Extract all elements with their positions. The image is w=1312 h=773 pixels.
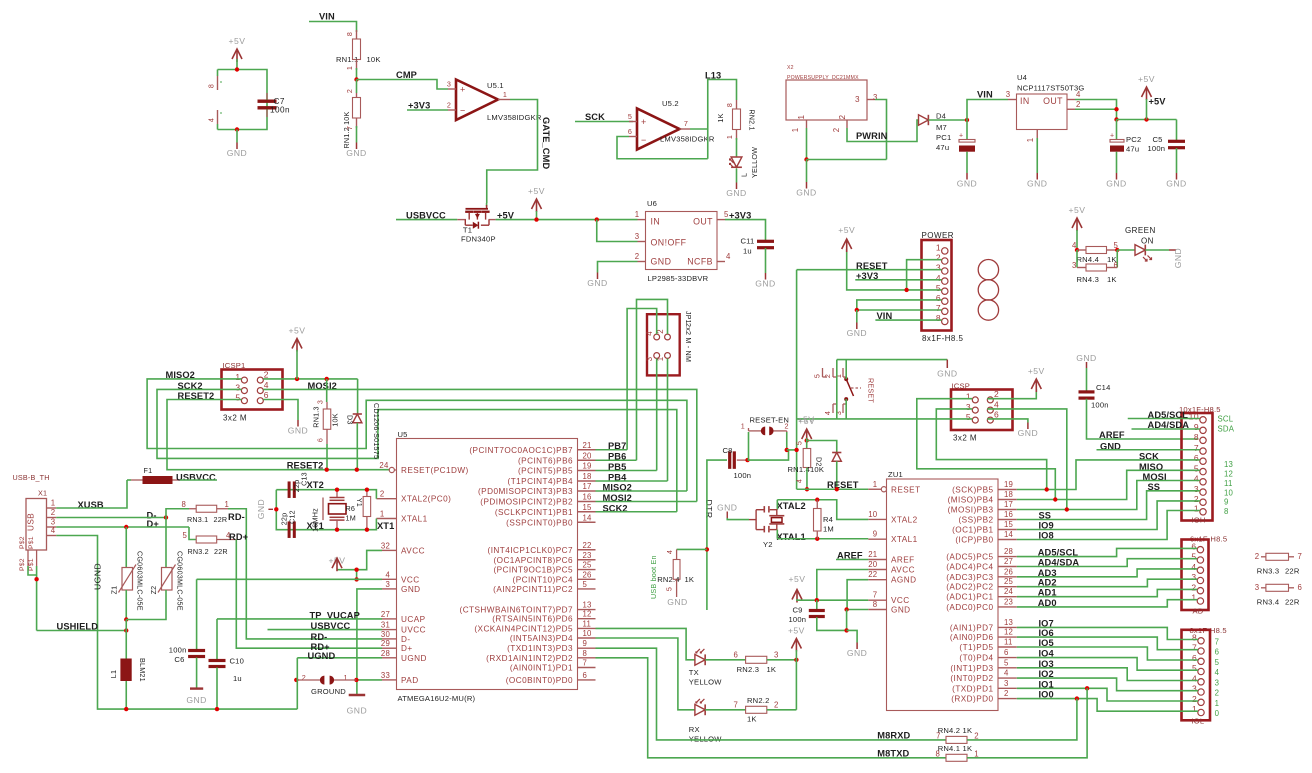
diode D2 bbox=[807, 441, 837, 453]
pin 3 bbox=[1008, 99, 1017, 101]
ICSP1 +5V wire bbox=[263, 378, 357, 380]
svg-text:8: 8 bbox=[1194, 432, 1199, 442]
svg-text:RN3.4: RN3.4 bbox=[1257, 598, 1280, 607]
capacitor C11 1u bbox=[757, 240, 774, 243]
svg-text:+5V: +5V bbox=[1149, 97, 1167, 107]
junction bbox=[844, 607, 848, 611]
svg-text:+: + bbox=[460, 85, 466, 95]
svg-text:3: 3 bbox=[645, 357, 654, 362]
svg-text:CG0603MLC-05E: CG0603MLC-05E bbox=[136, 551, 145, 611]
svg-text:R4: R4 bbox=[823, 515, 833, 524]
svg-text:+5V: +5V bbox=[1069, 205, 1086, 215]
svg-text:LMV358IDGKR: LMV358IDGKR bbox=[660, 135, 715, 144]
JP1 pin 4 bbox=[654, 334, 660, 340]
svg-text:GND: GND bbox=[957, 179, 977, 189]
U5 AVCC +5V wiring bbox=[337, 550, 382, 569]
AD pin 6 bbox=[1197, 547, 1203, 553]
svg-text:VIN: VIN bbox=[319, 12, 335, 22]
svg-text:15: 15 bbox=[583, 503, 593, 512]
svg-text:PC2: PC2 bbox=[1126, 135, 1141, 144]
op-amp U5.1 LMV358IDGKR bbox=[456, 80, 498, 121]
svg-text:(INT5AIN3)PD4: (INT5AIN3)PD4 bbox=[510, 634, 573, 643]
svg-text:U5.1: U5.1 bbox=[487, 81, 504, 90]
svg-text:RN1.3: RN1.3 bbox=[312, 406, 321, 427]
svg-text:GND: GND bbox=[1027, 179, 1047, 189]
resistor RN1.3 10K bbox=[326, 379, 328, 402]
svg-text:+5V: +5V bbox=[528, 186, 545, 196]
junction bbox=[235, 67, 239, 71]
svg-text:TX: TX bbox=[689, 668, 699, 677]
svg-text:RN2.1: RN2.1 bbox=[748, 109, 757, 130]
svg-text:(ICP)PB0: (ICP)PB0 bbox=[955, 536, 993, 545]
IO4 wire bbox=[1017, 658, 1198, 671]
feedback wire bbox=[617, 137, 708, 159]
svg-text:17: 17 bbox=[583, 482, 592, 491]
capacitor C13 22p bbox=[288, 481, 291, 498]
svg-text:6: 6 bbox=[264, 390, 269, 400]
svg-text:GND: GND bbox=[847, 648, 867, 658]
wire bbox=[787, 449, 797, 451]
wire to U6 ON/OFF bbox=[597, 220, 638, 242]
svg-text:11: 11 bbox=[1224, 479, 1233, 488]
SCK wire bbox=[1017, 460, 1200, 490]
pin 2 ground bbox=[638, 261, 646, 263]
power bypass wiring for U5 supply bbox=[218, 70, 268, 130]
svg-text:RN2.2: RN2.2 bbox=[747, 696, 770, 705]
varistor Z1 CG0603MLC-05E bbox=[125, 527, 127, 568]
svg-text:POWER: POWER bbox=[922, 231, 954, 240]
svg-text:CD1206-S01575: CD1206-S01575 bbox=[372, 403, 381, 459]
svg-text:5: 5 bbox=[1191, 552, 1196, 562]
svg-text:3: 3 bbox=[1194, 484, 1199, 494]
svg-text:L1: L1 bbox=[109, 670, 118, 678]
ICSP1 pin 4 bbox=[257, 388, 263, 394]
AD5 wire bbox=[1017, 548, 1197, 556]
IO8 wire bbox=[1017, 511, 1200, 540]
svg-text:9: 9 bbox=[1194, 422, 1199, 432]
svg-text:7: 7 bbox=[936, 303, 941, 313]
ground bbox=[806, 160, 808, 183]
POWER pin 6 bbox=[942, 298, 948, 304]
svg-text:GND: GND bbox=[401, 585, 421, 594]
junction bbox=[124, 707, 128, 711]
AD1 wire bbox=[1017, 589, 1197, 596]
U5 pin 10 PD4 bbox=[578, 637, 596, 639]
svg-text:25: 25 bbox=[1004, 577, 1014, 586]
svg-text:AVCC: AVCC bbox=[401, 546, 425, 555]
svg-text:XTAL2: XTAL2 bbox=[891, 515, 918, 524]
ZU1 pin 15 PB1 bbox=[998, 529, 1017, 531]
IOH pin 5 bbox=[1200, 468, 1206, 474]
junction bbox=[534, 217, 538, 221]
svg-text:RESET: RESET bbox=[867, 378, 876, 403]
svg-text:(ADC4)PC4: (ADC4)PC4 bbox=[946, 563, 993, 572]
svg-text:L: L bbox=[740, 173, 749, 177]
JP1 pin 2 bbox=[665, 334, 671, 340]
pin 7 output bbox=[680, 128, 691, 130]
svg-text:17: 17 bbox=[1004, 500, 1013, 509]
svg-text:4: 4 bbox=[385, 570, 390, 579]
POWER pin 2 bbox=[942, 258, 948, 264]
svg-text:19: 19 bbox=[1004, 480, 1013, 489]
svg-text:14: 14 bbox=[583, 513, 593, 522]
U5 pin 1 XTAL1 bbox=[376, 518, 396, 520]
svg-text:ATMEGA16U2-MU(R): ATMEGA16U2-MU(R) bbox=[398, 694, 476, 703]
resistor RN1.1 10K bbox=[356, 30, 358, 39]
AD pin 2 bbox=[1197, 588, 1203, 594]
svg-text:13: 13 bbox=[1004, 618, 1013, 627]
svg-text:F1: F1 bbox=[144, 466, 153, 475]
U5 pin 8 PD2 bbox=[578, 657, 596, 659]
svg-text:(OC1APCINT8)PC6: (OC1APCINT8)PC6 bbox=[493, 556, 573, 565]
svg-text:+5V: +5V bbox=[788, 626, 805, 636]
POWER pin 5 bbox=[942, 288, 948, 294]
LED ON green bbox=[1117, 249, 1135, 251]
ZU1 AVCC wire bbox=[817, 570, 869, 601]
IO5 wire bbox=[1017, 647, 1198, 660]
svg-text:1: 1 bbox=[51, 499, 56, 508]
MISO2 wire bbox=[596, 490, 687, 492]
svg-text:22R: 22R bbox=[1285, 567, 1300, 576]
svg-text:13: 13 bbox=[583, 601, 592, 610]
svg-text:1K: 1K bbox=[767, 665, 777, 674]
svg-text:NCP1117ST50T3G: NCP1117ST50T3G bbox=[1017, 84, 1085, 93]
pin 3 bbox=[448, 88, 456, 90]
X1 pin 4 bbox=[47, 535, 57, 537]
ground bbox=[736, 183, 738, 190]
svg-text:+: + bbox=[641, 117, 647, 127]
pin 3 bbox=[638, 241, 646, 243]
svg-text:RN3.1: RN3.1 bbox=[187, 515, 208, 524]
svg-text:R6: R6 bbox=[346, 504, 356, 513]
svg-text:7: 7 bbox=[345, 126, 354, 130]
POWER pin7 ground wire bbox=[857, 309, 942, 311]
capacitor PC2 47u polarized bbox=[1116, 120, 1118, 140]
capacitor PC1 47u polarized bbox=[966, 120, 968, 140]
svg-text:4: 4 bbox=[1192, 674, 1197, 684]
svg-text:1u: 1u bbox=[233, 674, 242, 683]
svg-text:26: 26 bbox=[1004, 567, 1013, 576]
svg-text:C9: C9 bbox=[793, 606, 803, 615]
svg-text:(PCINT6)PB6: (PCINT6)PB6 bbox=[518, 456, 573, 465]
svg-text:+5V: +5V bbox=[789, 574, 806, 584]
svg-text:XT1: XT1 bbox=[377, 521, 394, 531]
capacitor C5 100n bbox=[1176, 120, 1178, 142]
resistor RN4.3 1K bbox=[1076, 250, 1078, 268]
svg-text:2: 2 bbox=[774, 701, 779, 710]
svg-text:Y1: Y1 bbox=[355, 498, 362, 507]
svg-text:4: 4 bbox=[1076, 90, 1081, 99]
PB4 wire bbox=[596, 480, 668, 482]
svg-text:+: + bbox=[959, 133, 963, 140]
svg-text:3: 3 bbox=[834, 411, 843, 415]
svg-text:Z1: Z1 bbox=[110, 586, 119, 595]
U5 pin 3 GND bbox=[382, 588, 397, 590]
svg-text:32: 32 bbox=[381, 541, 390, 550]
svg-text:100n: 100n bbox=[789, 615, 807, 624]
svg-text:XTAL2(PC0): XTAL2(PC0) bbox=[401, 495, 451, 504]
svg-text:Z2: Z2 bbox=[149, 586, 158, 595]
U5 pin 18 PB4 bbox=[578, 480, 596, 482]
junction bbox=[595, 217, 599, 221]
U5 pin 14 PB0 bbox=[578, 521, 596, 523]
RD+ wire bbox=[236, 540, 382, 649]
IOL pin 1 bbox=[1198, 709, 1204, 715]
junction node CMP bbox=[354, 77, 358, 81]
svg-text:16MHz: 16MHz bbox=[311, 508, 320, 532]
IOH pin 9 bbox=[1200, 427, 1206, 433]
POWER pin2 +3V3 wire bbox=[907, 260, 942, 290]
ZU1 pin 20 AVCC bbox=[868, 569, 886, 571]
svg-text:19: 19 bbox=[583, 462, 592, 471]
ZU1 pin 17 PB3 bbox=[998, 509, 1017, 511]
svg-text:C13: C13 bbox=[300, 472, 309, 486]
junction bbox=[794, 658, 798, 662]
svg-text:+3V3: +3V3 bbox=[408, 101, 430, 111]
svg-text:29: 29 bbox=[381, 639, 390, 648]
svg-text:1K: 1K bbox=[1107, 275, 1117, 284]
svg-text:VCC: VCC bbox=[401, 575, 420, 584]
RXLED wire bbox=[596, 638, 695, 710]
svg-text:GND: GND bbox=[717, 503, 737, 513]
svg-text:3: 3 bbox=[1215, 679, 1220, 688]
ZU1 pin 5 PD3 bbox=[998, 667, 1017, 669]
svg-text:6: 6 bbox=[1004, 648, 1009, 657]
IO1 wire bbox=[1017, 688, 1198, 701]
jumper pin2 wire bbox=[786, 432, 788, 450]
U5 pin 31 UVCC bbox=[382, 629, 397, 631]
svg-text:3: 3 bbox=[315, 400, 324, 404]
resistor RN2.2 1K bbox=[705, 709, 745, 711]
U5 pin 4 VCC bbox=[382, 578, 397, 580]
ZU1 pin 19 PB5 bbox=[998, 489, 1017, 491]
svg-text:XT2: XT2 bbox=[307, 480, 324, 490]
svg-text:10: 10 bbox=[1189, 412, 1199, 422]
junction bbox=[855, 308, 859, 312]
svg-text:5: 5 bbox=[1194, 463, 1199, 473]
U5 power pin 8 bbox=[217, 76, 219, 90]
AD3 wire bbox=[1017, 569, 1197, 577]
svg-text:RD-: RD- bbox=[311, 632, 328, 642]
svg-text:FDN340P: FDN340P bbox=[461, 235, 496, 244]
svg-text:SCL: SCL bbox=[1218, 415, 1234, 424]
svg-text:5: 5 bbox=[966, 412, 971, 422]
TXLED wire bbox=[596, 628, 695, 659]
jumper pin1 wire bbox=[748, 432, 750, 460]
svg-text:6: 6 bbox=[315, 438, 324, 442]
svg-text:4: 4 bbox=[994, 399, 999, 409]
IO0 wire bbox=[1017, 699, 1198, 712]
junction bbox=[124, 628, 128, 632]
svg-text:2: 2 bbox=[51, 508, 56, 517]
svg-text:3: 3 bbox=[635, 232, 640, 241]
svg-text:8: 8 bbox=[1192, 633, 1197, 643]
svg-text:GND: GND bbox=[847, 328, 867, 338]
ICSP pin 5 bbox=[972, 417, 978, 423]
U5 pin 2 XTAL2 bbox=[376, 498, 396, 500]
IO2 wire bbox=[1017, 678, 1198, 691]
svg-text:SDA: SDA bbox=[1218, 425, 1235, 434]
svg-text:IOH: IOH bbox=[1192, 516, 1206, 525]
svg-text:8: 8 bbox=[207, 84, 216, 88]
svg-text:10K: 10K bbox=[367, 55, 381, 64]
svg-text:RX: RX bbox=[689, 725, 700, 734]
capacitor C8 100n bbox=[728, 451, 731, 469]
wire bbox=[356, 68, 358, 80]
svg-text:NCFB: NCFB bbox=[687, 257, 713, 267]
svg-text:16: 16 bbox=[583, 493, 592, 502]
svg-text:2: 2 bbox=[832, 128, 841, 133]
svg-text:RESET: RESET bbox=[891, 485, 921, 494]
svg-text:(ADC2)PC2: (ADC2)PC2 bbox=[946, 583, 993, 592]
svg-text:GND: GND bbox=[1076, 353, 1096, 363]
svg-text:RN1.1: RN1.1 bbox=[336, 55, 359, 64]
svg-text:5: 5 bbox=[628, 112, 632, 121]
JP1 pin4 wire to PB7 bbox=[627, 309, 657, 450]
RESET wire to ZU1 bbox=[797, 488, 869, 490]
AD0 wire bbox=[1017, 600, 1197, 607]
svg-text:7: 7 bbox=[1298, 552, 1303, 561]
svg-text:RD+: RD+ bbox=[229, 532, 249, 542]
pin 2 bbox=[846, 120, 848, 128]
junction bbox=[124, 617, 128, 621]
U5 pin 15 PB1 bbox=[578, 511, 596, 513]
svg-text:5: 5 bbox=[936, 283, 941, 293]
IOH pin 4 bbox=[1200, 479, 1206, 485]
svg-text:RN2.3: RN2.3 bbox=[737, 665, 760, 674]
svg-text:47u: 47u bbox=[936, 143, 949, 152]
LED TX yellow bbox=[695, 654, 705, 665]
junction bbox=[1075, 696, 1079, 700]
svg-text:2: 2 bbox=[838, 114, 847, 119]
svg-text:DTR: DTR bbox=[704, 500, 714, 519]
ZU1 pin 27 PC4 bbox=[998, 566, 1017, 568]
diode D3 CD1206-S01575 bbox=[357, 379, 359, 414]
POWER pin6 wire bbox=[857, 300, 942, 310]
svg-text:28: 28 bbox=[381, 649, 390, 658]
svg-text:(T1PCINT4)PB4: (T1PCINT4)PB4 bbox=[508, 477, 573, 486]
+5V rail wire bbox=[1117, 119, 1177, 121]
svg-text:(SS)PB2: (SS)PB2 bbox=[958, 516, 993, 525]
svg-text:1: 1 bbox=[791, 128, 800, 133]
ICSP pin2 +5V wire bbox=[987, 389, 1036, 399]
IOH pin 8 bbox=[1200, 437, 1206, 443]
junction bbox=[1114, 107, 1118, 111]
svg-text:4: 4 bbox=[823, 411, 832, 415]
svg-text:C11: C11 bbox=[741, 237, 755, 246]
svg-text:(OC1)PB1: (OC1)PB1 bbox=[952, 526, 993, 535]
ZU1 pin 13 PD7 bbox=[998, 626, 1017, 628]
resistor RN1.2 10K bbox=[356, 80, 358, 94]
U5 pin 33 PAD bbox=[382, 679, 397, 681]
svg-text:GND: GND bbox=[346, 148, 366, 158]
svg-text:3x2 M: 3x2 M bbox=[223, 414, 247, 423]
svg-text:GND: GND bbox=[667, 597, 687, 607]
ZU1 pin 22 AGND bbox=[868, 579, 886, 581]
net DTR to RN2.4 bbox=[705, 547, 709, 551]
svg-text:6: 6 bbox=[1194, 453, 1199, 463]
ground bbox=[856, 310, 858, 323]
svg-text:GND: GND bbox=[347, 706, 367, 716]
svg-text:(TXD1INT3)PD3: (TXD1INT3)PD3 bbox=[507, 644, 573, 653]
U5 pin 19 PB5 bbox=[578, 470, 596, 472]
ICSP1 pin 2 bbox=[257, 377, 263, 383]
svg-text:15: 15 bbox=[1004, 520, 1014, 529]
svg-text:2: 2 bbox=[302, 673, 306, 682]
svg-text:GND: GND bbox=[186, 695, 206, 705]
svg-text:10K: 10K bbox=[331, 413, 340, 426]
svg-text:GATE_CMD: GATE_CMD bbox=[541, 117, 551, 169]
svg-text:2: 2 bbox=[785, 422, 789, 431]
U5 power pin 4 bbox=[217, 110, 219, 124]
svg-text:3: 3 bbox=[1004, 679, 1009, 688]
svg-text:IO8: IO8 bbox=[1039, 531, 1054, 541]
svg-text:GND: GND bbox=[1018, 428, 1038, 438]
PB7 wire bbox=[596, 449, 628, 451]
svg-text:1: 1 bbox=[225, 500, 230, 509]
JP1 pin 1 bbox=[665, 353, 671, 359]
svg-text:1: 1 bbox=[1215, 699, 1220, 708]
svg-text:4: 4 bbox=[645, 331, 654, 336]
pin 2 bbox=[448, 109, 456, 111]
svg-text:24: 24 bbox=[1004, 587, 1014, 596]
svg-text:10: 10 bbox=[868, 510, 878, 519]
M8RXD wire to IO0 bbox=[967, 699, 1077, 740]
junction bbox=[805, 487, 809, 491]
svg-text:RD-: RD- bbox=[228, 512, 245, 522]
svg-text:X2: X2 bbox=[787, 65, 794, 71]
ICSP pin 3 bbox=[972, 407, 978, 413]
AD pin 1 bbox=[1197, 598, 1203, 604]
svg-text:AD: AD bbox=[1193, 607, 1204, 616]
svg-text:14: 14 bbox=[1004, 530, 1014, 539]
svg-text:(SSPCINT0)PB0: (SSPCINT0)PB0 bbox=[506, 518, 573, 527]
U5 pin 9 PD3 bbox=[578, 647, 596, 649]
svg-text:YELLOW: YELLOW bbox=[689, 678, 722, 687]
junction bbox=[1115, 248, 1119, 252]
svg-text:RN3.3: RN3.3 bbox=[1257, 567, 1280, 576]
svg-text:CG0603MLC-05E: CG0603MLC-05E bbox=[176, 551, 185, 611]
pin 6 bbox=[629, 136, 637, 138]
svg-text:(ADC0)PC0: (ADC0)PC0 bbox=[946, 603, 993, 612]
svg-text:4: 4 bbox=[936, 273, 941, 283]
POWER pin 7 bbox=[942, 308, 948, 314]
pin 4 bbox=[717, 261, 725, 263]
svg-text:C10: C10 bbox=[230, 657, 245, 666]
JP1 pin1 wire to PB4 bbox=[667, 358, 669, 481]
U5 pin 25 PC5 bbox=[578, 569, 596, 571]
svg-text:23: 23 bbox=[1004, 597, 1013, 606]
svg-text:9: 9 bbox=[1224, 498, 1229, 507]
ZU1 pin 28 PC5 bbox=[998, 556, 1017, 558]
U5 pin 17 PB3 bbox=[578, 490, 596, 492]
svg-text:22: 22 bbox=[868, 570, 877, 579]
svg-text:1: 1 bbox=[1026, 138, 1035, 143]
svg-text:4: 4 bbox=[207, 118, 216, 122]
svg-text:30: 30 bbox=[381, 630, 391, 639]
svg-text:0: 0 bbox=[1215, 709, 1220, 718]
svg-text:5: 5 bbox=[795, 441, 804, 445]
ICSP pin6 ground wire bbox=[987, 419, 1028, 423]
svg-text:11: 11 bbox=[1004, 638, 1013, 647]
U5 pin 22 PC7 bbox=[578, 549, 596, 551]
svg-text:(INT0)PD2: (INT0)PD2 bbox=[950, 674, 993, 683]
ground bbox=[847, 630, 858, 642]
ZU1 AGND wire bbox=[847, 580, 868, 610]
svg-text:M7: M7 bbox=[936, 123, 947, 132]
svg-text:23: 23 bbox=[583, 551, 592, 560]
svg-text:9: 9 bbox=[873, 530, 878, 539]
